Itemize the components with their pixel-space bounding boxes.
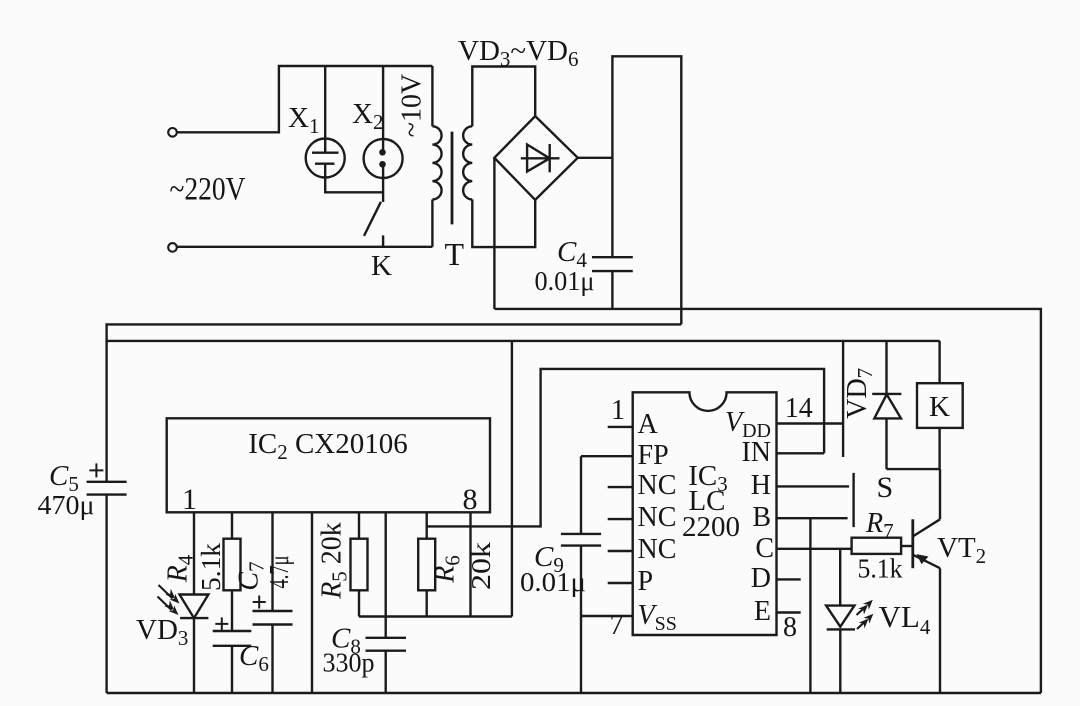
wire X1 bottom to X2 line: [325, 178, 383, 193]
svg-text:5.1k: 5.1k: [196, 542, 226, 591]
svg-text:P: P: [638, 566, 654, 597]
wire IC2 pin1 down: [193, 512, 195, 594]
transformer T secondary coil: [463, 126, 472, 199]
socket X1: [306, 139, 345, 178]
switch K blade: [364, 202, 381, 236]
wire jog R6 top to IN net: [427, 369, 824, 527]
IC3 pin E stub: [777, 611, 801, 613]
wire IC2 pin5 down: [358, 512, 360, 538]
bridge inner diode: [521, 157, 560, 159]
bridge rectifier VD3~VD6 diamond: [494, 116, 577, 200]
transformer T primary coil: [432, 126, 441, 199]
wire IC2 pin8 down: [469, 512, 471, 616]
svg-text:C: C: [755, 533, 774, 564]
relay K box: [917, 383, 963, 428]
IC3 pin NC2 stub: [608, 518, 633, 520]
diode VD7 wire top: [885, 341, 887, 394]
svg-text:8: 8: [463, 483, 478, 516]
wire X2 bottom to switch: [382, 178, 384, 202]
svg-text:0.01μ: 0.01μ: [535, 266, 595, 296]
LED VD3 (receiver diode): [180, 595, 209, 619]
IC3 pin FP wire: [581, 455, 633, 457]
VL4 emitted light arrows: [857, 600, 874, 629]
IC3 pin P stub: [608, 582, 633, 584]
IC3 pin A stub: [608, 426, 633, 428]
wire rail B: [107, 324, 682, 481]
svg-text:~10V: ~10V: [397, 74, 428, 137]
svg-text:D: D: [751, 563, 771, 594]
IC3 pin NC1 stub: [608, 486, 633, 488]
svg-text:8: 8: [783, 612, 797, 643]
wire bridge left vertex down: [493, 158, 495, 309]
wire bottom rail: [107, 692, 1041, 694]
wire net H1: [359, 615, 512, 617]
svg-text:1: 1: [611, 395, 625, 426]
wire VDD riser: [842, 341, 844, 457]
svg-text:NC: NC: [638, 534, 677, 565]
IC3 pin NC3 stub: [608, 550, 633, 552]
IC U: IC2 CX20106 box: [167, 418, 490, 512]
svg-text:2200: 2200: [682, 511, 740, 543]
wire IC2 pin7 down: [426, 512, 428, 538]
terminal input bottom: [168, 243, 177, 252]
wire top terminal to corner: [177, 66, 432, 132]
svg-text:NC: NC: [638, 470, 677, 501]
contact S bar: [852, 473, 854, 527]
svg-text:NC: NC: [638, 502, 677, 533]
svg-text:IC2 CX20106: IC2 CX20106: [248, 428, 408, 464]
svg-text:0.01μ: 0.01μ: [520, 567, 586, 597]
capacitor C5: [87, 481, 127, 483]
VD3 incoming light arrows: [158, 585, 180, 615]
svg-text:FP: FP: [638, 440, 669, 471]
socket X1 vertical wire top: [324, 66, 326, 139]
IC3 pin C wire: [777, 548, 852, 550]
svg-text:T: T: [445, 236, 465, 272]
wire bridge right vertex to C4 line: [578, 157, 613, 159]
label C5 plus: [89, 463, 103, 477]
svg-text:7: 7: [610, 610, 624, 641]
capacitor C7: [253, 610, 293, 612]
capacitor C4: [592, 256, 633, 258]
wire K net to VT2 collector: [939, 469, 941, 519]
resistor R6: [418, 539, 435, 591]
label C7 plus: [253, 596, 266, 609]
wire IC2 pin3 down: [271, 512, 273, 611]
resistor R7: [852, 538, 902, 554]
transformer T secondary wires: [472, 67, 535, 127]
IC3 pin B wire: [777, 517, 848, 519]
LED VL4: [826, 606, 854, 627]
label C6 plus: [215, 617, 228, 630]
svg-text:R5 20k: R5 20k: [317, 522, 352, 600]
svg-text:H: H: [751, 470, 771, 501]
wire bottom rail: [177, 246, 432, 248]
wire C pin to VL4: [839, 549, 841, 606]
svg-text:K: K: [371, 250, 392, 282]
IC U: IC3 LC2200 box: [633, 392, 777, 635]
wire FP/C9 vertical: [580, 456, 582, 534]
IC3 pin H wire: [777, 485, 850, 487]
terminal input top: [168, 128, 177, 137]
transformer T core: [451, 132, 454, 225]
capacitor C6: [213, 630, 252, 632]
wire rail C drop to net H1: [511, 341, 513, 617]
wire K bottom / VD7 join: [887, 428, 940, 469]
svg-text:5.1k: 5.1k: [858, 554, 903, 584]
IC3 pin D stub: [777, 578, 801, 580]
resistor R5: [351, 539, 368, 591]
svg-text:1: 1: [182, 483, 197, 516]
wire IC2 pin4 down: [311, 512, 313, 693]
svg-text:4.7μ: 4.7μ: [264, 556, 294, 589]
transformer T primary wire: [431, 66, 433, 126]
wire rail C: [107, 340, 940, 342]
switch K bottom stub: [382, 235, 384, 246]
wire B net down: [809, 518, 811, 693]
diode VD7: [872, 393, 901, 395]
svg-text:~220V: ~220V: [170, 172, 246, 208]
wire IC2 pin2 down: [231, 512, 233, 538]
IC3 pin VDD wire: [777, 422, 844, 424]
wire rail A (bridge minus rail): [494, 309, 1041, 693]
socket X2: [364, 139, 403, 178]
capacitor C9: [561, 533, 601, 535]
svg-text:IN: IN: [741, 437, 771, 468]
svg-text:E: E: [754, 596, 771, 627]
transistor VT2: [911, 519, 914, 568]
svg-text:VD3~VD6: VD3~VD6: [458, 35, 578, 71]
IC3 pin VSS wire: [581, 615, 633, 617]
svg-text:470μ: 470μ: [38, 490, 95, 520]
svg-text:A: A: [638, 409, 659, 440]
wire C4 vertical top: [612, 56, 681, 324]
wire rail C to K: [938, 341, 940, 383]
capacitor C8: [366, 637, 407, 639]
svg-text:330p: 330p: [323, 648, 375, 678]
resistor R4: [224, 539, 241, 591]
svg-text:14: 14: [785, 393, 813, 424]
wire IC2 pin6 down: [385, 512, 387, 638]
IC3 pin IN wire: [777, 452, 825, 454]
svg-text:K: K: [929, 391, 950, 423]
svg-text:S: S: [877, 471, 894, 504]
svg-text:B: B: [752, 502, 771, 533]
socket X2 vertical wire top: [382, 66, 384, 139]
